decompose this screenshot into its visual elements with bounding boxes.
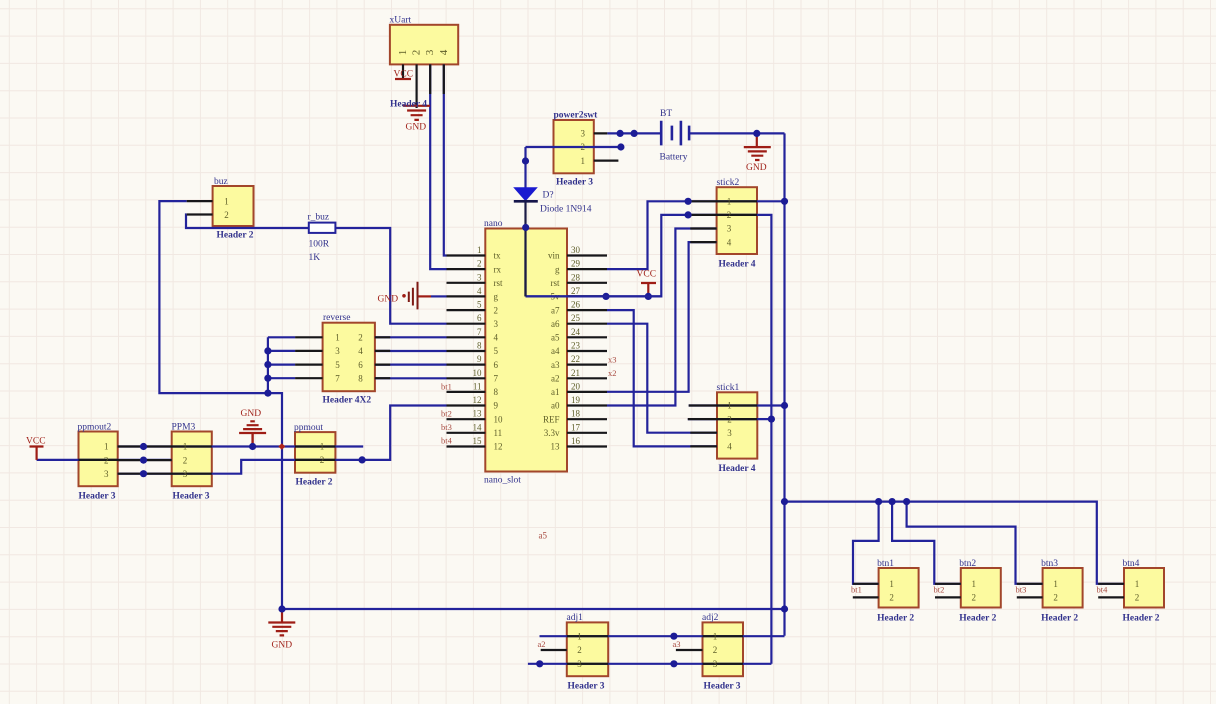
svg-text:a3: a3 bbox=[551, 360, 560, 370]
svg-text:btn3: btn3 bbox=[1041, 559, 1058, 569]
svg-text:11: 11 bbox=[494, 428, 503, 438]
svg-text:a7: a7 bbox=[551, 305, 560, 315]
svg-text:8: 8 bbox=[358, 373, 363, 383]
svg-text:8: 8 bbox=[477, 340, 482, 350]
svg-text:2: 2 bbox=[577, 645, 582, 655]
svg-text:g: g bbox=[494, 292, 499, 302]
svg-text:bt2: bt2 bbox=[441, 409, 452, 419]
svg-text:Header 2: Header 2 bbox=[296, 478, 333, 488]
svg-text:vin: vin bbox=[548, 251, 560, 261]
svg-text:bt1: bt1 bbox=[851, 585, 862, 595]
svg-text:2: 2 bbox=[183, 455, 188, 465]
svg-text:3: 3 bbox=[104, 469, 109, 479]
svg-text:14: 14 bbox=[473, 422, 483, 432]
svg-text:GND: GND bbox=[378, 295, 399, 305]
svg-text:2: 2 bbox=[727, 414, 732, 424]
svg-text:2: 2 bbox=[411, 50, 423, 56]
svg-text:btn2: btn2 bbox=[959, 559, 976, 569]
svg-text:1: 1 bbox=[727, 197, 732, 207]
svg-text:28: 28 bbox=[571, 272, 581, 282]
svg-text:3: 3 bbox=[335, 346, 340, 356]
svg-text:7: 7 bbox=[494, 373, 499, 383]
svg-text:4: 4 bbox=[727, 442, 732, 452]
svg-text:stick1: stick1 bbox=[717, 383, 740, 393]
svg-text:21: 21 bbox=[571, 368, 580, 378]
svg-text:power2swt: power2swt bbox=[554, 111, 599, 121]
svg-text:x3: x3 bbox=[608, 355, 617, 365]
svg-text:a2: a2 bbox=[551, 373, 560, 383]
svg-text:tx: tx bbox=[494, 251, 502, 261]
svg-text:btn1: btn1 bbox=[877, 559, 894, 569]
svg-text:GND: GND bbox=[272, 641, 293, 651]
svg-text:4: 4 bbox=[477, 286, 482, 296]
svg-text:4: 4 bbox=[358, 346, 363, 356]
svg-text:stick2: stick2 bbox=[717, 178, 740, 188]
svg-text:3.3v: 3.3v bbox=[544, 428, 560, 438]
svg-text:1: 1 bbox=[1135, 579, 1140, 589]
svg-text:1: 1 bbox=[727, 401, 732, 411]
svg-text:3: 3 bbox=[727, 224, 732, 234]
svg-text:g: g bbox=[555, 264, 560, 274]
svg-text:Header 3: Header 3 bbox=[568, 682, 605, 692]
svg-text:1: 1 bbox=[477, 245, 482, 255]
svg-text:Header 2: Header 2 bbox=[1041, 613, 1078, 623]
svg-text:3: 3 bbox=[477, 272, 482, 282]
svg-text:bt3: bt3 bbox=[1016, 585, 1027, 595]
svg-text:a4: a4 bbox=[551, 346, 560, 356]
svg-text:1: 1 bbox=[320, 442, 325, 452]
svg-text:12: 12 bbox=[494, 442, 503, 452]
svg-text:2: 2 bbox=[320, 455, 325, 465]
svg-text:5: 5 bbox=[477, 300, 482, 310]
svg-text:1: 1 bbox=[335, 333, 340, 343]
svg-text:rst: rst bbox=[551, 278, 560, 288]
svg-text:1: 1 bbox=[972, 579, 977, 589]
svg-text:Header 2: Header 2 bbox=[959, 613, 996, 623]
svg-text:9: 9 bbox=[477, 354, 482, 364]
svg-text:VCC: VCC bbox=[637, 270, 657, 280]
svg-text:Header 3: Header 3 bbox=[704, 682, 741, 692]
svg-text:27: 27 bbox=[571, 286, 581, 296]
svg-text:5: 5 bbox=[335, 360, 340, 370]
svg-text:7: 7 bbox=[335, 373, 340, 383]
svg-text:D?: D? bbox=[543, 191, 554, 201]
svg-text:a6: a6 bbox=[551, 319, 560, 329]
svg-text:8: 8 bbox=[494, 387, 499, 397]
svg-text:VCC: VCC bbox=[394, 70, 414, 80]
svg-text:Header 3: Header 3 bbox=[556, 178, 593, 188]
svg-text:adj1: adj1 bbox=[567, 613, 584, 623]
svg-text:bt4: bt4 bbox=[441, 436, 453, 446]
svg-text:13: 13 bbox=[473, 409, 483, 419]
svg-text:24: 24 bbox=[571, 327, 581, 337]
svg-text:PPM3: PPM3 bbox=[172, 423, 196, 433]
svg-text:20: 20 bbox=[571, 381, 581, 391]
svg-text:r_buz: r_buz bbox=[308, 213, 330, 223]
svg-text:2: 2 bbox=[727, 210, 732, 220]
svg-text:18: 18 bbox=[571, 409, 581, 419]
svg-text:13: 13 bbox=[551, 442, 561, 452]
svg-text:buz: buz bbox=[214, 177, 228, 187]
svg-text:23: 23 bbox=[571, 340, 581, 350]
svg-text:4: 4 bbox=[438, 49, 450, 55]
svg-text:Header 3: Header 3 bbox=[79, 492, 116, 502]
svg-text:10: 10 bbox=[473, 368, 483, 378]
svg-text:5: 5 bbox=[494, 346, 499, 356]
svg-text:1: 1 bbox=[224, 197, 229, 207]
svg-text:1: 1 bbox=[577, 631, 582, 641]
svg-text:22: 22 bbox=[571, 354, 580, 364]
svg-text:1: 1 bbox=[713, 631, 718, 641]
svg-text:Header 2: Header 2 bbox=[877, 613, 914, 623]
svg-text:GND: GND bbox=[406, 123, 427, 133]
svg-text:bt3: bt3 bbox=[441, 422, 452, 432]
svg-text:ppmout: ppmout bbox=[294, 423, 323, 433]
svg-text:Header 3: Header 3 bbox=[173, 492, 210, 502]
svg-text:6: 6 bbox=[494, 360, 499, 370]
svg-text:a5: a5 bbox=[539, 531, 548, 541]
svg-text:2: 2 bbox=[224, 210, 229, 220]
svg-text:adj2: adj2 bbox=[702, 613, 719, 623]
svg-text:bt4: bt4 bbox=[1097, 585, 1109, 595]
svg-text:3: 3 bbox=[183, 469, 188, 479]
svg-text:Header 2: Header 2 bbox=[1123, 613, 1160, 623]
svg-text:10: 10 bbox=[494, 414, 504, 424]
svg-text:1: 1 bbox=[183, 442, 188, 452]
svg-text:4: 4 bbox=[494, 333, 499, 343]
svg-text:a5: a5 bbox=[551, 333, 560, 343]
svg-text:Header 4: Header 4 bbox=[390, 100, 427, 110]
svg-text:30: 30 bbox=[571, 245, 581, 255]
svg-text:3: 3 bbox=[727, 428, 732, 438]
svg-text:3: 3 bbox=[581, 129, 586, 139]
svg-text:15: 15 bbox=[473, 436, 483, 446]
svg-text:a2: a2 bbox=[538, 639, 546, 649]
svg-text:12: 12 bbox=[473, 395, 482, 405]
svg-text:Header 4: Header 4 bbox=[719, 260, 756, 270]
svg-text:1: 1 bbox=[889, 579, 894, 589]
svg-text:1: 1 bbox=[397, 50, 409, 56]
svg-text:nano_slot: nano_slot bbox=[484, 476, 521, 486]
svg-text:Battery: Battery bbox=[660, 153, 688, 163]
svg-text:Header 4X2: Header 4X2 bbox=[323, 396, 372, 406]
svg-text:6: 6 bbox=[477, 313, 482, 323]
svg-text:btn4: btn4 bbox=[1123, 559, 1140, 569]
svg-text:2: 2 bbox=[889, 593, 894, 603]
svg-text:3: 3 bbox=[577, 659, 582, 669]
svg-text:GND: GND bbox=[241, 409, 262, 419]
svg-text:2: 2 bbox=[358, 333, 363, 343]
svg-text:x2: x2 bbox=[608, 368, 617, 378]
svg-text:2: 2 bbox=[477, 259, 482, 269]
svg-text:2: 2 bbox=[104, 455, 109, 465]
svg-text:3: 3 bbox=[713, 659, 718, 669]
svg-text:rx: rx bbox=[494, 264, 502, 274]
svg-text:ppmout2: ppmout2 bbox=[78, 423, 112, 433]
svg-text:bt1: bt1 bbox=[441, 382, 452, 392]
svg-text:rst: rst bbox=[494, 278, 503, 288]
svg-text:2: 2 bbox=[972, 593, 977, 603]
svg-text:29: 29 bbox=[571, 259, 581, 269]
svg-text:1: 1 bbox=[1053, 579, 1058, 589]
svg-text:2: 2 bbox=[713, 645, 718, 655]
svg-text:VCC: VCC bbox=[26, 437, 46, 447]
svg-text:a1: a1 bbox=[551, 387, 560, 397]
svg-text:17: 17 bbox=[571, 422, 581, 432]
svg-text:2: 2 bbox=[1135, 593, 1140, 603]
svg-text:3: 3 bbox=[424, 49, 436, 55]
svg-text:6: 6 bbox=[358, 360, 363, 370]
svg-text:a3: a3 bbox=[673, 639, 681, 649]
svg-text:9: 9 bbox=[494, 401, 499, 411]
svg-text:bt2: bt2 bbox=[934, 585, 945, 595]
svg-text:2: 2 bbox=[581, 142, 586, 152]
svg-text:7: 7 bbox=[477, 327, 482, 337]
svg-text:2: 2 bbox=[494, 305, 499, 315]
svg-text:4: 4 bbox=[727, 237, 732, 247]
svg-text:1: 1 bbox=[104, 442, 109, 452]
svg-text:xUart: xUart bbox=[390, 16, 412, 26]
svg-text:19: 19 bbox=[571, 395, 581, 405]
svg-text:reverse: reverse bbox=[323, 313, 350, 323]
svg-text:1K: 1K bbox=[309, 253, 321, 263]
svg-text:2: 2 bbox=[1053, 593, 1058, 603]
svg-text:GND: GND bbox=[746, 163, 767, 173]
svg-text:16: 16 bbox=[571, 436, 581, 446]
svg-text:REF: REF bbox=[543, 414, 560, 424]
svg-text:BT: BT bbox=[660, 109, 672, 119]
svg-text:1: 1 bbox=[581, 156, 586, 166]
svg-text:100R: 100R bbox=[309, 240, 330, 250]
svg-text:Header 4: Header 4 bbox=[719, 464, 756, 474]
svg-text:a0: a0 bbox=[551, 401, 560, 411]
svg-text:Header 2: Header 2 bbox=[217, 231, 254, 241]
svg-text:26: 26 bbox=[571, 300, 581, 310]
svg-text:Diode 1N914: Diode 1N914 bbox=[540, 205, 592, 215]
svg-text:25: 25 bbox=[571, 313, 581, 323]
svg-text:3: 3 bbox=[494, 319, 499, 329]
svg-text:nano: nano bbox=[484, 219, 503, 229]
svg-text:11: 11 bbox=[473, 381, 482, 391]
